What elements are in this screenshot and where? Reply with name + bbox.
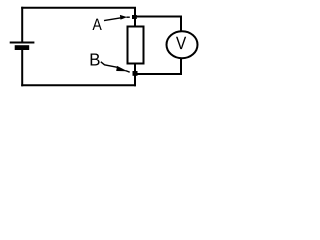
wire resistor top lead (node A down to resistor): [134, 8, 136, 27]
label node B: [91, 53, 100, 65]
battery BT1 short thick plate (negative): [15, 45, 30, 50]
node B junction dot: [133, 71, 138, 76]
voltmeter V body circle: [167, 31, 198, 58]
resistor R1 body: [128, 27, 144, 64]
arrow B leader line: [101, 62, 118, 68]
arrow A tail: [127, 16, 130, 18]
wire voltmeter bottom lead: [180, 59, 182, 76]
wire bottom: [21, 84, 136, 86]
label node A: [92, 19, 101, 30]
arrow A leader line: [104, 18, 123, 21]
node A junction dot: [132, 15, 137, 19]
voltmeter label V: [176, 37, 186, 49]
wire left lower (battery - down to bottom wire): [21, 50, 23, 86]
wire branch A (node A to voltmeter top corner): [135, 16, 182, 18]
wire branch B (voltmeter bottom corner to node B): [135, 73, 182, 75]
battery BT1 long plate (positive): [10, 42, 35, 44]
wire top (battery + to node A riser): [21, 7, 136, 9]
wire voltmeter top lead: [180, 16, 182, 32]
wire left upper (top-left corner down to battery): [21, 7, 23, 42]
arrow A head: [120, 15, 127, 20]
arrow B tail: [126, 71, 130, 73]
arrow B head: [116, 66, 127, 71]
wire riser bottom (bottom wire up to node B): [134, 64, 136, 86]
